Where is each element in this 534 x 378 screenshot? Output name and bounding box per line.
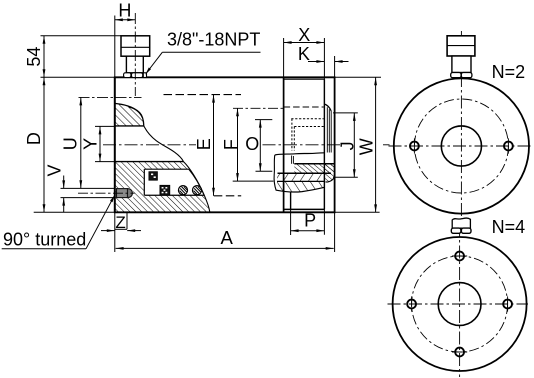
svg-text:90° turned: 90° turned bbox=[3, 229, 86, 249]
collar inner chamfer arc bbox=[324, 104, 331, 111]
N=4 horizontal centerline bbox=[388, 303, 529, 305]
hidden bore dashed top bbox=[164, 94, 242, 96]
svg-text:H: H bbox=[118, 0, 131, 20]
N=4 bolt hole bottom bbox=[455, 348, 464, 357]
dimension F bbox=[221, 108, 283, 181]
N=2 fitting neck bbox=[452, 56, 471, 73]
body left edge bbox=[114, 16, 116, 253]
dimension 54 bbox=[24, 36, 121, 78]
N=2 bolt hole right bbox=[504, 142, 513, 151]
seal 2 bbox=[160, 185, 170, 195]
svg-text:W: W bbox=[356, 138, 376, 155]
svg-text:Z: Z bbox=[115, 213, 125, 232]
svg-text:J: J bbox=[337, 141, 357, 150]
N=4 bolt hole left bbox=[407, 300, 416, 309]
collar edge line bbox=[323, 38, 325, 235]
svg-text:N=2: N=2 bbox=[492, 62, 526, 82]
right end face bbox=[334, 56, 336, 252]
end view N=2: outer circle bbox=[389, 31, 533, 222]
port fitting cap bbox=[121, 36, 150, 56]
reduced section bottom line bbox=[284, 208, 325, 210]
N=4 fitting nut bbox=[451, 228, 461, 233]
dimension P bbox=[291, 210, 325, 232]
dimension J bbox=[333, 113, 358, 177]
svg-text:F: F bbox=[221, 139, 241, 150]
break S-curve middle bbox=[144, 126, 184, 162]
gland block (hatched, top-left) bbox=[115, 103, 144, 126]
dimension Y bbox=[81, 126, 115, 161]
thread row boundary lines bbox=[294, 163, 334, 165]
thread end verticals bbox=[291, 156, 293, 164]
dimension W bbox=[356, 77, 377, 212]
end view N=4: outer circle bbox=[388, 217, 529, 377]
svg-text:Y: Y bbox=[81, 138, 101, 150]
body step edge bbox=[283, 38, 285, 212]
body bottom outline bbox=[34, 211, 380, 213]
piston and body lower block (hatched) bbox=[115, 162, 210, 213]
port centerline bbox=[134, 13, 136, 96]
dimension D bbox=[24, 77, 46, 212]
svg-text:3/8"-18NPT: 3/8"-18NPT bbox=[167, 30, 260, 50]
dimension V bbox=[45, 164, 66, 212]
leader 3/8"-18NPT bbox=[145, 30, 260, 75]
N=2 fitting cap bbox=[447, 36, 475, 78]
svg-text:A: A bbox=[221, 227, 234, 248]
dimension E bbox=[194, 95, 215, 196]
N=4 fitting remnant cap bbox=[451, 218, 471, 233]
N=2 center hole bbox=[441, 126, 481, 166]
main centerline bbox=[103, 144, 196, 146]
N=2 bolt hole left bbox=[410, 142, 419, 151]
plug extension lines bbox=[61, 187, 115, 189]
side port plug (90 deg turned) bbox=[117, 189, 133, 198]
bolt hole centerline bbox=[79, 96, 142, 98]
reduced section top line bbox=[284, 78, 325, 80]
thread row 1 hatch bbox=[294, 164, 334, 173]
hidden plunger line bbox=[284, 106, 324, 108]
N=4 bolt hole top bbox=[455, 252, 464, 261]
N=2 fitting locknut bbox=[451, 73, 461, 78]
rod break-out left wavy edge bbox=[274, 155, 276, 191]
svg-text:V: V bbox=[45, 164, 65, 176]
svg-text:N=4: N=4 bbox=[492, 217, 526, 237]
svg-text:E: E bbox=[194, 138, 214, 150]
dimension A bbox=[116, 227, 334, 250]
hidden thread lines dotted bbox=[291, 118, 323, 120]
o-ring 1 bbox=[178, 186, 187, 195]
dimension K bbox=[298, 44, 349, 64]
svg-text:U: U bbox=[60, 137, 80, 150]
svg-text:P: P bbox=[304, 210, 316, 230]
svg-text:K: K bbox=[298, 44, 310, 64]
svg-text:X: X bbox=[298, 25, 310, 45]
hidden bore dashed bottom bbox=[214, 195, 241, 197]
thread row 3 hatch bbox=[277, 181, 324, 192]
plug centerline bbox=[78, 192, 135, 194]
N=2 horizontal centerline bbox=[389, 145, 533, 147]
dimension U bbox=[60, 97, 82, 188]
dimension Z with frame bbox=[101, 212, 141, 232]
plunger rod break-out: top wavy edge bbox=[275, 153, 325, 155]
port fitting hex nut bbox=[124, 73, 147, 78]
leader 90 deg turned bbox=[2, 195, 115, 250]
seal 1 bbox=[149, 172, 158, 181]
thread hook region hatch bbox=[324, 164, 334, 182]
thread row 2 hatch bbox=[277, 173, 324, 181]
svg-text:O: O bbox=[245, 134, 259, 154]
seal pocket outline bbox=[144, 169, 204, 195]
N=4 vertical centerline bbox=[459, 224, 461, 377]
N=2 vertical centerline bbox=[460, 31, 462, 222]
N=4 center hole bbox=[438, 283, 481, 326]
body top outline bbox=[41, 76, 382, 78]
N=4 bolt circle bbox=[412, 256, 508, 352]
svg-text:D: D bbox=[24, 132, 44, 145]
stop nut left face bbox=[290, 193, 292, 210]
dimension X bbox=[284, 25, 325, 45]
N=4 bolt hole right bbox=[503, 300, 512, 309]
svg-text:54: 54 bbox=[24, 47, 44, 67]
N=2 bolt circle bbox=[414, 99, 508, 193]
port fitting neck bbox=[126, 56, 143, 73]
dimension O bbox=[245, 120, 272, 172]
dimension H bbox=[115, 0, 136, 21]
o-ring 2 bbox=[192, 186, 201, 195]
